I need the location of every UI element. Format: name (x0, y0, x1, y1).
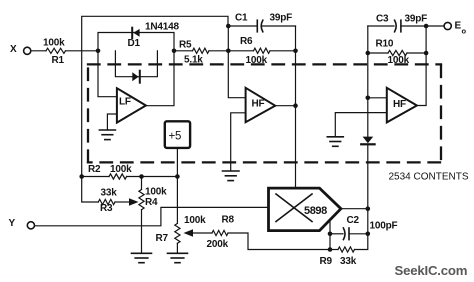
wire 5898 output to node H (341, 208, 368, 210)
node C junction (R5/R6/C1) (226, 49, 231, 54)
svg-text:LF: LF (119, 97, 131, 108)
svg-text:R3: R3 (100, 203, 113, 214)
svg-text:R7: R7 (156, 233, 169, 244)
wire HF1 output to node E (275, 105, 295, 107)
svg-text:E: E (455, 21, 462, 32)
diode D3 on HF2 input line (361, 98, 374, 209)
svg-text:+5: +5 (169, 131, 182, 143)
svg-text:C2: C2 (347, 215, 360, 226)
diode D1 1N4148 top feedback (98, 22, 179, 51)
potentiometer R4 100k (139, 177, 167, 254)
resistor R9 33k (320, 234, 368, 267)
potentiometer R8 200k with wiper arrow (184, 215, 331, 251)
svg-text:39pF: 39pF (405, 14, 428, 25)
svg-text:1N4148: 1N4148 (145, 22, 179, 33)
node E_o output terminal (426, 21, 466, 36)
node Y input terminal (9, 218, 35, 229)
svg-text:R8: R8 (222, 215, 235, 226)
svg-text:33k: 33k (340, 256, 357, 267)
wire node E down to 5898 top pin (295, 106, 297, 188)
wire HF2 + input to ground (335, 113, 386, 137)
node G junction (+5 / R2 right) (175, 174, 180, 179)
ground below R4 (132, 253, 152, 262)
resistor R1 100k (43, 38, 66, 67)
multiplier U3 5898 (269, 188, 341, 231)
svg-text:5898: 5898 (304, 205, 327, 217)
resistor R10 100k (368, 39, 426, 67)
svg-text:X: X (10, 44, 17, 55)
svg-text:100k: 100k (184, 215, 206, 226)
wire X to R1 (31, 50, 46, 52)
svg-text:Y: Y (9, 218, 16, 229)
svg-text:R2: R2 (88, 164, 101, 175)
svg-text:R5: R5 (179, 40, 192, 51)
dashed box 2534 contents (88, 64, 441, 162)
wire 5898 bottom pin down to C2/R9 (329, 222, 331, 250)
ground below HF2 + input (327, 137, 343, 147)
svg-text:R10: R10 (376, 39, 394, 50)
node K junction (E_o) (424, 24, 429, 29)
svg-text:33k: 33k (101, 188, 118, 199)
diode D2 lower anti-parallel feedback (115, 51, 157, 83)
ground below LF (99, 130, 115, 140)
svg-text:100k: 100k (388, 55, 410, 66)
wire +5 down through R2 node to R7 (176, 148, 178, 224)
svg-text:100k: 100k (43, 38, 65, 49)
wire HF2 output up to E_o line (417, 26, 426, 106)
capacitor C3 39pF (368, 14, 427, 32)
svg-text:SeekIC.com: SeekIC.com (395, 263, 468, 278)
potentiometer R7 with ground (156, 215, 207, 253)
node B junction (172, 49, 177, 54)
svg-text:2534 CONTENTS: 2534 CONTENTS (389, 172, 469, 183)
resistor R5 5.1k (174, 40, 228, 66)
wire HF1 + input to ground (231, 113, 245, 171)
wire Y to 5898 left input (35, 207, 269, 225)
capacitor C2 100pF (330, 215, 397, 240)
svg-text:D1: D1 (128, 38, 141, 49)
svg-text:R4: R4 (145, 197, 158, 208)
resistor R3 33k with wiper arrow (82, 177, 139, 215)
resistor R2 100k (79, 164, 177, 179)
svg-text:100pF: 100pF (370, 221, 398, 232)
ground below HF1 (223, 171, 240, 181)
svg-text:HF: HF (393, 99, 406, 110)
node J junction (R10 left) (366, 51, 371, 56)
svg-text:C3: C3 (376, 14, 389, 25)
svg-text:C1: C1 (235, 13, 248, 24)
node X input terminal (10, 44, 31, 55)
ground below R7 (168, 253, 188, 262)
op-amp U4 HF (387, 88, 417, 123)
svg-text:R1: R1 (52, 55, 65, 66)
wire LF + input to ground (107, 114, 116, 130)
resistor R6 100k (228, 36, 295, 66)
svg-text:HF: HF (252, 99, 265, 110)
node A junction (96, 49, 101, 54)
svg-text:R6: R6 (240, 36, 253, 47)
wire node A to LF inverting input (98, 51, 116, 97)
svg-text:39pF: 39pF (270, 13, 293, 24)
wire top feedback rail (C1 junction to left rail, down to R2) (82, 16, 228, 176)
node F junction (R4 top) (139, 174, 144, 179)
svg-text:200k: 200k (207, 239, 229, 250)
node D junction (R6 right / C1 right / HF1 out) (293, 49, 298, 54)
op-amp U1 LF (117, 88, 146, 122)
capacitor C1 39pF (228, 13, 295, 32)
svg-text:R9: R9 (320, 256, 333, 267)
wire node C down to HF1 inverting input (228, 26, 245, 98)
node E junction (293, 103, 298, 108)
svg-text:100k: 100k (145, 187, 167, 198)
svg-text:o: o (462, 27, 467, 36)
svg-text:100k: 100k (110, 164, 132, 175)
wire R1 to node A (66, 50, 99, 52)
node I junction (HF2 inverting input) (366, 96, 371, 101)
op-amp U2 HF (246, 88, 276, 122)
wire LF output up to node B (146, 51, 174, 106)
power +5 box (165, 121, 190, 148)
